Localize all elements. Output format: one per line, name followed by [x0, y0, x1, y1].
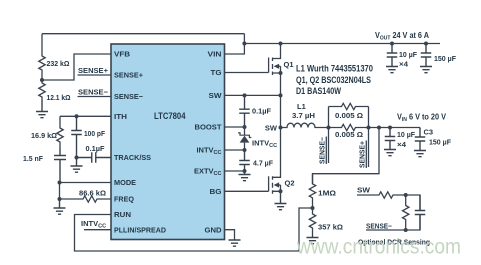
capacitor C 100pF — [71, 116, 82, 157]
ground below FREQ — [54, 199, 66, 214]
svg-text:10 µF: 10 µF — [399, 50, 417, 59]
svg-text:TRACK/SS: TRACK/SS — [114, 153, 151, 162]
wire VOUT rail — [244, 43, 440, 45]
node SW at Q1 source line — [279, 93, 283, 97]
ground below C3 — [414, 151, 426, 157]
svg-text:10 µF: 10 µF — [397, 130, 415, 139]
node VFB divider junction — [40, 78, 44, 82]
node FREQ junction — [58, 197, 62, 201]
ground below VOUT 10uF — [386, 67, 398, 73]
wire TG to Q1 gate — [225, 72, 269, 74]
svg-text:GND: GND — [205, 225, 223, 234]
capacitor C dcr — [415, 195, 426, 230]
svg-text:12.1 kΩ: 12.1 kΩ — [47, 93, 71, 102]
net label SENSE- vertical — [318, 136, 327, 164]
svg-text:357 kΩ: 357 kΩ — [318, 223, 343, 232]
capacitor C 10uF VIN — [385, 128, 396, 150]
svg-text:L1: L1 — [297, 102, 306, 111]
svg-text:SW: SW — [265, 124, 278, 133]
resistor R dcr vertical — [403, 195, 409, 230]
svg-text:C3: C3 — [424, 128, 434, 137]
node VIN divider tap — [377, 126, 381, 130]
node INTVcc junction — [243, 148, 247, 152]
wire VIN rail to C3 — [369, 127, 421, 129]
svg-text:ITH: ITH — [114, 112, 127, 121]
wire divider tap to 1M — [313, 128, 380, 185]
wire GND pin — [225, 230, 235, 240]
wire EXTVcc pin — [225, 170, 245, 172]
resistor R 16.9k ITH — [57, 116, 63, 148]
transistor Q1 — [268, 58, 270, 73]
wire SENSE- pin stub — [78, 96, 112, 98]
svg-text:150 µF: 150 µF — [429, 138, 451, 147]
svg-text:LTC7804: LTC7804 — [154, 111, 186, 122]
node RUN divider junction — [311, 206, 315, 210]
wire SW pin — [225, 94, 281, 96]
svg-text:0.1µF: 0.1µF — [252, 107, 271, 116]
diode D1 schottky — [244, 127, 246, 150]
svg-text:SENSE+: SENSE+ — [114, 71, 144, 80]
capacitor C 10uF VOUT — [387, 44, 398, 67]
wire INTVcc pin — [225, 149, 245, 151]
node VOUT 150uF junction — [424, 42, 428, 46]
ground below 4.7uF — [239, 171, 251, 181]
ground below Q2 — [275, 191, 287, 209]
svg-text:BG: BG — [210, 187, 222, 196]
wire SENSE+ sense stub — [368, 128, 370, 168]
svg-text:1MΩ: 1MΩ — [318, 189, 336, 198]
svg-text:SENSE−: SENSE− — [78, 88, 109, 97]
node TRACK/SS junction — [75, 156, 79, 160]
svg-text:VFB: VFB — [114, 50, 131, 59]
svg-text:4.7 µF: 4.7 µF — [253, 159, 273, 168]
capacitor C 150uF VOUT — [421, 44, 432, 67]
wire BG to Q2 gate — [225, 190, 269, 192]
node BOOST junction — [243, 125, 247, 129]
node Q1 drain at VOUT — [279, 42, 283, 46]
svg-text:TG: TG — [211, 68, 222, 77]
node MODE junction — [58, 181, 62, 185]
wire ITH — [60, 115, 111, 117]
transistor Q2 — [268, 176, 270, 191]
wire VOUT feedback top rail — [42, 33, 244, 35]
resistor R 357k — [309, 208, 315, 238]
resistor R sense 0.005 main — [329, 124, 369, 130]
svg-text:×4: ×4 — [397, 140, 407, 149]
svg-text:86.6 kΩ: 86.6 kΩ — [79, 189, 106, 198]
wire SENSE+ pin stub — [78, 74, 112, 76]
svg-text:100 pF: 100 pF — [84, 129, 105, 138]
ground below 100pF — [71, 158, 83, 173]
resistor R 1M — [309, 174, 315, 208]
node EXTVcc junction — [243, 169, 247, 173]
svg-text:0.005 Ω: 0.005 Ω — [335, 130, 363, 139]
wire PLLIN/SPREAD stub — [84, 229, 111, 231]
svg-text:FREQ: FREQ — [114, 195, 134, 204]
capacitor C 0.1uF boost — [239, 95, 250, 127]
node dcr bottom junction — [404, 228, 408, 232]
op-amp U1 LTC7804 IC body — [111, 44, 225, 240]
svg-text:0.1µF: 0.1µF — [86, 144, 105, 153]
wire SENSE- dcr bottom — [366, 215, 420, 230]
svg-text:D1 BAS140W: D1 BAS140W — [296, 86, 341, 96]
wire VIN pin to VOUT rail — [225, 34, 245, 54]
wire dcr top right corner — [406, 195, 420, 211]
svg-text:PLLIN/SPREAD: PLLIN/SPREAD — [114, 225, 167, 234]
ground at GND pin — [229, 240, 241, 246]
wire SENSE- sense stub — [328, 128, 330, 164]
svg-text:0.005 Ω: 0.005 Ω — [335, 111, 363, 120]
svg-text:1.5 nF: 1.5 nF — [23, 154, 43, 163]
svg-text:Q1: Q1 — [284, 60, 294, 69]
wire MODE-FREQ vertical — [59, 183, 61, 200]
svg-text:×4: ×4 — [399, 60, 409, 69]
svg-text:232 kΩ: 232 kΩ — [47, 59, 70, 68]
svg-text:BOOST: BOOST — [195, 123, 222, 132]
wire SW dcr with resistor — [357, 192, 406, 198]
node VOUT-VIN junction — [242, 42, 246, 46]
svg-text:VIN: VIN — [208, 50, 222, 59]
svg-text:MODE: MODE — [114, 178, 136, 187]
svg-text:SW: SW — [357, 186, 371, 195]
svg-text:L1 Wurth 7443551370: L1 Wurth 7443551370 — [296, 64, 373, 74]
ground below 12.1k — [36, 100, 48, 118]
inductor L1 — [281, 123, 329, 127]
svg-text:SENSE−: SENSE− — [114, 92, 144, 101]
svg-text:16.9 kΩ: 16.9 kΩ — [31, 131, 57, 140]
node sense resistor right junction — [367, 126, 371, 130]
node SW rail junction — [279, 126, 283, 130]
capacitor C 4.7uF — [239, 150, 250, 171]
capacitor C 0.1uF TRACK/SS — [77, 152, 112, 163]
resistor R 12.1k — [39, 80, 45, 100]
svg-text:SENSE+: SENSE+ — [78, 66, 109, 75]
wire MODE — [60, 182, 112, 184]
svg-text:SENSE−: SENSE− — [318, 136, 327, 164]
wire RUN to divider tap — [75, 208, 313, 251]
svg-text:SENSE+: SENSE+ — [358, 140, 367, 168]
svg-text:SENSE−: SENSE− — [366, 222, 393, 231]
node Q1 source — [279, 71, 283, 75]
node SW-boost cap junction — [243, 93, 247, 97]
node ITH junction — [75, 114, 79, 118]
svg-text:www.cntronics.com: www.cntronics.com — [296, 235, 461, 259]
node Q2 source — [279, 189, 283, 193]
svg-text:RUN: RUN — [114, 210, 131, 219]
node VOUT 10uF junction — [390, 42, 394, 46]
svg-text:150 µF: 150 µF — [434, 54, 456, 63]
capacitor C 1.5nF — [54, 148, 66, 183]
resistor R sense 0.005 top branch — [328, 107, 330, 128]
svg-text:Q2: Q2 — [285, 179, 295, 188]
wire VFB to divider tap — [42, 54, 111, 80]
ground below VOUT 150uF — [420, 67, 432, 73]
node dcr top junction — [404, 193, 408, 197]
svg-text:3.7 µH: 3.7 µH — [292, 111, 315, 120]
node VIN cap junction — [388, 126, 392, 130]
wire Q1 source to SW node — [280, 73, 282, 177]
wire BOOST pin — [225, 126, 245, 128]
node sense resistor left junction — [327, 126, 331, 130]
ground below VIN 10uF — [384, 150, 396, 156]
ground below 357k — [307, 238, 319, 244]
svg-text:Q1, Q2 BSC032N04LS: Q1, Q2 BSC032N04LS — [296, 75, 371, 85]
resistor R 232k — [39, 34, 45, 80]
resistor R 86.6k FREQ — [60, 196, 112, 202]
svg-text:SW: SW — [209, 91, 223, 100]
capacitor C3 150uF — [419, 128, 421, 130]
net label SENSE+ vertical — [358, 140, 367, 168]
